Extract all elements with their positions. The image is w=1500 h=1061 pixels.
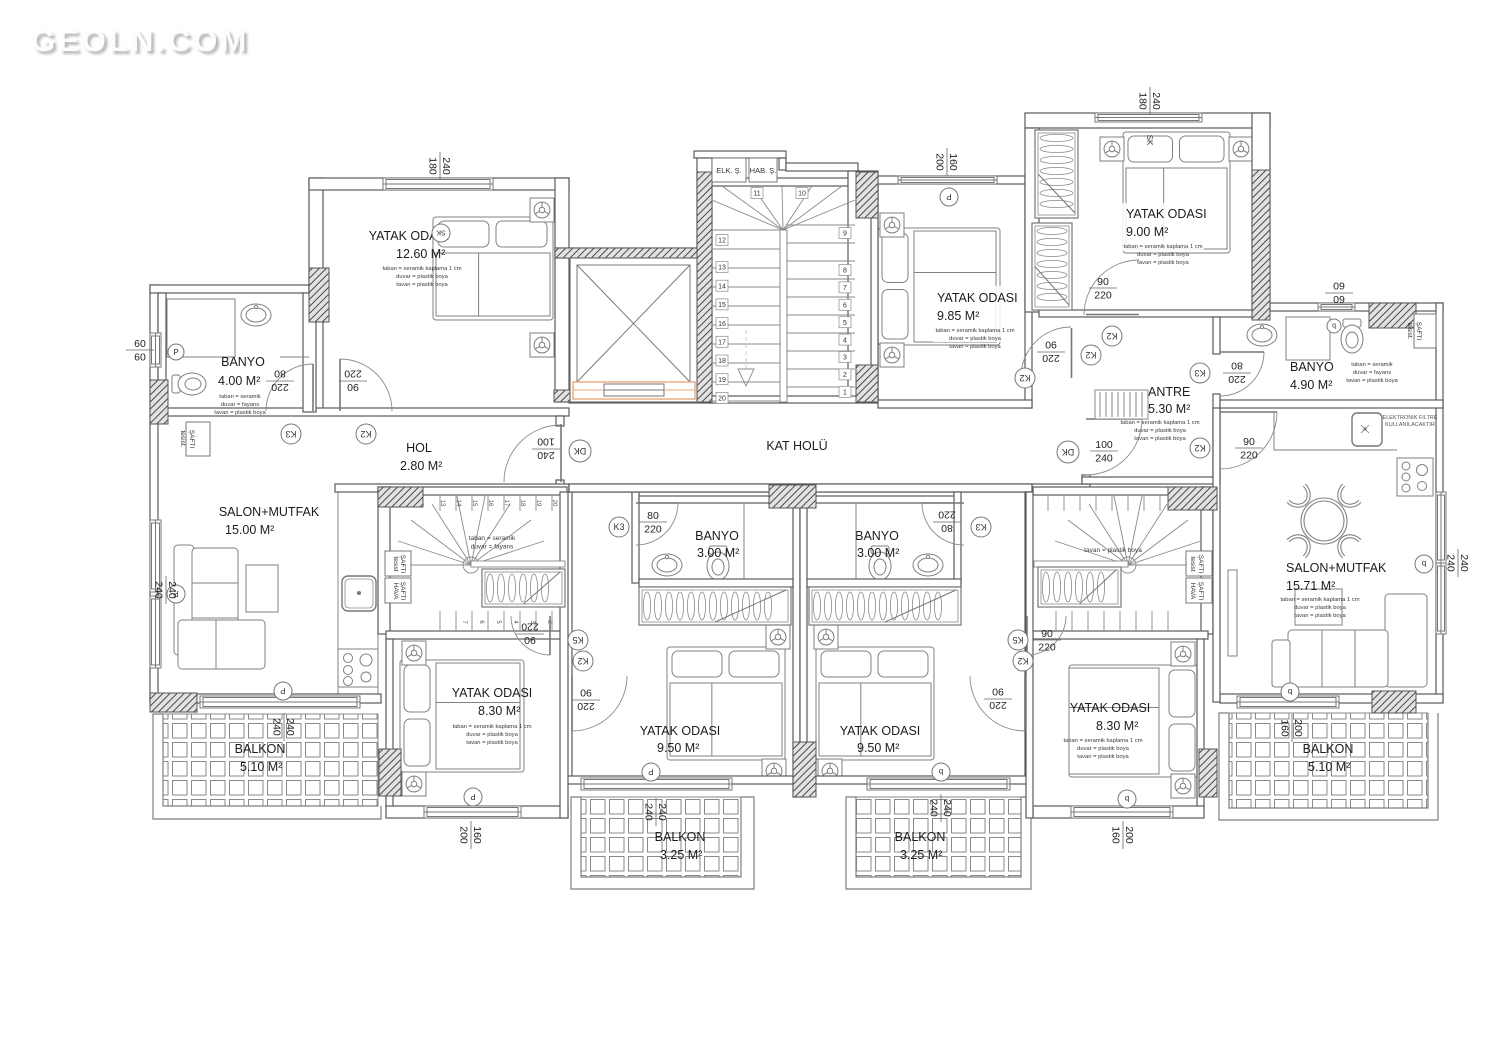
svg-text:14: 14 xyxy=(455,500,461,507)
svg-text:90: 90 xyxy=(1041,628,1053,640)
svg-text:taban = seramik kaplama 1 cm: taban = seramik kaplama 1 cm xyxy=(935,328,1014,334)
svg-text:tavan = plastik boya: tavan = plastik boya xyxy=(949,344,1001,350)
svg-text:duvar = fayans: duvar = fayans xyxy=(1353,370,1391,376)
bed bedroom 8.30 left xyxy=(400,660,524,772)
svg-text:ŞAFTI: ŞAFTI xyxy=(1197,582,1204,601)
elevator shaft xyxy=(570,258,697,402)
svg-text:b: b xyxy=(1421,559,1426,568)
svg-text:220: 220 xyxy=(1042,352,1060,364)
door K3 banyo 4.90 xyxy=(1220,352,1264,396)
svg-text:220: 220 xyxy=(644,524,662,536)
spiral stair right duplex xyxy=(1050,496,1206,573)
entry mat antre xyxy=(1095,390,1148,419)
kitchen right: fridge and counter xyxy=(1352,413,1382,446)
svg-text:HAVA: HAVA xyxy=(392,583,399,600)
door bedroom 8.30 right xyxy=(1027,616,1066,655)
stairwell ELK.S HAB.S boxes xyxy=(712,158,746,182)
svg-text:HOL: HOL xyxy=(406,441,432,455)
door K2 bedroom 9.00 xyxy=(1084,260,1139,315)
svg-text:YATAK ODASI: YATAK ODASI xyxy=(1070,701,1151,715)
svg-text:tavan = plastik boya: tavan = plastik boya xyxy=(1077,754,1129,760)
svg-text:ANTRE: ANTRE xyxy=(1148,385,1190,399)
balcony BALKON 3.25 right grid xyxy=(856,797,1021,877)
svg-text:BALKON: BALKON xyxy=(895,830,946,844)
tv cabinet right salon xyxy=(1228,570,1237,656)
windows xyxy=(383,178,493,190)
door bedroom 8.30 left xyxy=(511,616,550,655)
coffee table right salon xyxy=(1295,589,1342,625)
svg-text:SALON+MUTFAK: SALON+MUTFAK xyxy=(219,505,320,519)
kitchen counter left with sink and stove xyxy=(338,487,378,695)
svg-text:5.10 M²: 5.10 M² xyxy=(240,760,282,774)
door dimension texts xyxy=(266,368,294,394)
svg-text:20: 20 xyxy=(718,396,726,403)
svg-text:taban = seramik: taban = seramik xyxy=(469,535,516,542)
balcony outlines xyxy=(153,713,1438,889)
svg-text:K2: K2 xyxy=(1019,373,1030,383)
svg-text:tesist.: tesist. xyxy=(179,431,186,448)
svg-text:taban = seramik: taban = seramik xyxy=(219,394,261,400)
svg-text:8.30 M²: 8.30 M² xyxy=(478,704,520,718)
svg-text:tavan = plastik boya: tavan = plastik boya xyxy=(396,282,448,288)
svg-text:b: b xyxy=(938,767,943,776)
svg-text:80: 80 xyxy=(274,368,286,380)
svg-text:K2: K2 xyxy=(1017,656,1028,666)
svg-text:duvar = plastik boya: duvar = plastik boya xyxy=(1077,746,1129,752)
svg-text:16: 16 xyxy=(487,500,493,507)
svg-text:90: 90 xyxy=(992,686,1004,698)
svg-text:180: 180 xyxy=(1137,92,1149,110)
svg-text:18: 18 xyxy=(519,500,525,507)
svg-text:60: 60 xyxy=(134,352,146,364)
svg-text:2.80 M²: 2.80 M² xyxy=(400,459,442,473)
svg-text:8.30 M²: 8.30 M² xyxy=(1096,719,1138,733)
svg-text:KAT HOLÜ: KAT HOLÜ xyxy=(766,439,827,453)
svg-text:9: 9 xyxy=(843,231,847,238)
svg-text:3.25 M²: 3.25 M² xyxy=(660,848,702,862)
svg-text:4.00 M²: 4.00 M² xyxy=(218,374,260,388)
spiral stair left duplex xyxy=(393,496,549,573)
svg-text:ELK. Ş.: ELK. Ş. xyxy=(716,166,741,175)
door K3 banyo 4.00 xyxy=(266,364,313,411)
svg-text:ŞAFTI: ŞAFTI xyxy=(188,430,195,449)
sink banyo 3.00 right xyxy=(913,554,943,576)
sink banyo 4.00 xyxy=(241,304,271,326)
svg-text:240: 240 xyxy=(1445,554,1457,572)
elevator door sill (orange) xyxy=(573,382,695,399)
svg-text:taban = seramik kaplama 1 cm: taban = seramik kaplama 1 cm xyxy=(452,724,531,730)
svg-text:ŞAFTI: ŞAFTI xyxy=(1197,555,1204,574)
svg-text:P: P xyxy=(173,348,178,357)
svg-text:K5: K5 xyxy=(572,635,583,645)
svg-text:3.25 M²: 3.25 M² xyxy=(900,848,942,862)
svg-text:K3: K3 xyxy=(975,522,986,532)
svg-text:taban = seramik kaplama 1 cm: taban = seramik kaplama 1 cm xyxy=(1123,244,1202,250)
wardrobe bedroom 8.30 right unit xyxy=(1038,567,1121,607)
wardrobe unit left xyxy=(639,587,791,625)
coffee table left salon xyxy=(246,565,278,612)
svg-text:220: 220 xyxy=(577,700,595,712)
svg-text:BALKON: BALKON xyxy=(235,742,286,756)
svg-text:6: 6 xyxy=(843,303,847,310)
balcony BALKON 3.25 left grid xyxy=(581,797,741,877)
door K2 bedroom 12.60 xyxy=(340,359,392,411)
svg-text:tavan = plastik boya: tavan = plastik boya xyxy=(1294,613,1346,619)
svg-text:240: 240 xyxy=(284,718,296,736)
svg-text:240: 240 xyxy=(537,449,555,461)
svg-text:160: 160 xyxy=(1110,826,1122,844)
svg-text:9.00 M²: 9.00 M² xyxy=(1126,225,1168,239)
wardrobe SK bedroom 9.00 lower xyxy=(1032,223,1072,310)
svg-text:SK: SK xyxy=(436,229,446,236)
svg-text:tesist: tesist xyxy=(392,556,399,571)
svg-text:HAVA: HAVA xyxy=(1189,583,1196,600)
sink banyo 3.00 left xyxy=(652,554,682,576)
toilet banyo 4.90 xyxy=(1341,319,1363,353)
svg-text:90: 90 xyxy=(524,634,536,646)
svg-text:K3: K3 xyxy=(613,522,624,532)
svg-text:220: 220 xyxy=(938,509,956,521)
svg-text:90: 90 xyxy=(347,381,359,393)
svg-text:240: 240 xyxy=(271,718,283,736)
svg-text:taban = seramik kaplama 1 cm: taban = seramik kaplama 1 cm xyxy=(1280,597,1359,603)
svg-text:tavan = plastik boya: tavan = plastik boya xyxy=(214,410,266,416)
svg-text:SALON+MUTFAK: SALON+MUTFAK xyxy=(1286,561,1387,575)
door DK apartment left entrance xyxy=(504,425,561,482)
svg-text:5: 5 xyxy=(843,320,847,327)
svg-text:60: 60 xyxy=(1333,293,1345,305)
label bedroom 9.00 xyxy=(1122,203,1204,251)
svg-text:240: 240 xyxy=(1458,554,1470,572)
shaft boxes right unit xyxy=(1186,551,1212,576)
svg-text:tesist: tesist xyxy=(1189,556,1196,571)
svg-text:160: 160 xyxy=(471,826,483,844)
svg-text:K2: K2 xyxy=(577,656,588,666)
svg-text:200: 200 xyxy=(934,153,946,171)
svg-text:60: 60 xyxy=(134,338,146,350)
svg-text:220: 220 xyxy=(1038,642,1056,654)
svg-text:19: 19 xyxy=(535,500,541,507)
svg-text:15: 15 xyxy=(718,302,726,309)
svg-text:DK: DK xyxy=(1062,447,1075,457)
door K2 salon right xyxy=(1220,412,1277,469)
wardrobe unit right xyxy=(809,587,961,625)
svg-text:tavan = plastik boya: tavan = plastik boya xyxy=(1084,547,1142,554)
svg-text:14: 14 xyxy=(718,283,726,290)
label bedroom 9.85 xyxy=(933,286,1011,342)
svg-text:220: 220 xyxy=(989,699,1007,711)
svg-text:220: 220 xyxy=(344,368,362,380)
svg-text:240: 240 xyxy=(153,581,165,599)
svg-text:BALKON: BALKON xyxy=(655,830,706,844)
svg-text:240: 240 xyxy=(1150,92,1162,110)
sofa left salon xyxy=(174,545,265,669)
svg-text:HAB. Ş.: HAB. Ş. xyxy=(750,166,777,175)
dimension texts xyxy=(427,152,453,180)
svg-text:8: 8 xyxy=(843,268,847,275)
svg-text:220: 220 xyxy=(521,621,539,633)
svg-text:18: 18 xyxy=(718,358,726,365)
shaft boxes left unit xyxy=(385,551,411,576)
svg-text:K5: K5 xyxy=(1012,635,1023,645)
toilet banyo 3.00 right xyxy=(869,546,891,580)
svg-text:taban = seramik kaplama 1 cm: taban = seramik kaplama 1 cm xyxy=(382,266,461,272)
svg-text:duvar = plastik boya: duvar = plastik boya xyxy=(396,274,448,280)
svg-text:220: 220 xyxy=(1240,450,1258,462)
door tag circles xyxy=(281,424,301,444)
svg-text:duvar = fayans: duvar = fayans xyxy=(471,544,515,551)
svg-text:taban = seramik kaplama 1 cm: taban = seramik kaplama 1 cm xyxy=(1063,738,1142,744)
svg-text:4: 4 xyxy=(843,337,847,344)
svg-text:K2: K2 xyxy=(1106,331,1117,341)
svg-text:duvar = plastik boya: duvar = plastik boya xyxy=(1294,605,1346,611)
svg-text:100: 100 xyxy=(1095,439,1113,451)
svg-text:12: 12 xyxy=(718,238,726,245)
svg-text:4.90 M²: 4.90 M² xyxy=(1290,378,1332,392)
shower banyo 4.00 xyxy=(167,299,235,357)
svg-text:3: 3 xyxy=(843,355,847,362)
svg-text:80: 80 xyxy=(1231,360,1243,372)
toilet banyo 3.00 left xyxy=(707,546,729,580)
balcony BALKON 5.10 right grid xyxy=(1229,713,1428,808)
svg-text:240: 240 xyxy=(928,799,940,817)
svg-text:90: 90 xyxy=(580,687,592,699)
svg-text:BANYO: BANYO xyxy=(221,355,265,369)
svg-text:2: 2 xyxy=(843,372,847,379)
svg-text:duvar = plastik boya: duvar = plastik boya xyxy=(1134,428,1186,434)
svg-text:90: 90 xyxy=(1045,339,1057,351)
svg-text:taban = seramik: taban = seramik xyxy=(1351,362,1393,368)
svg-text:240: 240 xyxy=(941,799,953,817)
svg-text:tavan = plastik boya: tavan = plastik boya xyxy=(1137,260,1189,266)
dining table right salon xyxy=(1287,484,1361,558)
svg-text:K2: K2 xyxy=(1194,443,1205,453)
svg-text:16: 16 xyxy=(718,321,726,328)
svg-text:P: P xyxy=(648,767,653,776)
bed bedroom 8.30 right xyxy=(1069,665,1199,777)
svg-text:13: 13 xyxy=(439,500,445,507)
svg-text:YATAK ODASI: YATAK ODASI xyxy=(937,291,1018,305)
svg-text:5.10 M²: 5.10 M² xyxy=(1308,760,1350,774)
svg-text:5.30 M²: 5.30 M² xyxy=(1148,402,1190,416)
svg-text:tavan = plastik boya: tavan = plastik boya xyxy=(1134,436,1186,442)
svg-text:220: 220 xyxy=(1228,373,1246,385)
door DK apartment right entrance xyxy=(1086,419,1142,475)
svg-text:BANYO: BANYO xyxy=(1290,360,1334,374)
svg-text:13: 13 xyxy=(718,265,726,272)
svg-text:YATAK ODASI: YATAK ODASI xyxy=(452,686,533,700)
stove and sink right kitchen xyxy=(1397,458,1433,496)
svg-text:taban = seramik kaplama 1 cm: taban = seramik kaplama 1 cm xyxy=(1120,420,1199,426)
wardrobe SK bedroom 9.00 upper xyxy=(1035,130,1078,218)
stair step numbers xyxy=(751,188,763,199)
svg-text:200: 200 xyxy=(458,826,470,844)
svg-text:240: 240 xyxy=(656,803,668,821)
shaft box banyo 4.90 xyxy=(1414,314,1436,348)
svg-text:1: 1 xyxy=(843,390,847,397)
svg-text:80: 80 xyxy=(647,510,659,522)
door K2 bedroom 9.50 left xyxy=(572,676,627,731)
bed bedroom 12.60 xyxy=(433,217,553,320)
bed bedroom 9.85 xyxy=(878,228,1000,345)
svg-text:BANYO: BANYO xyxy=(695,529,739,543)
svg-text:15.00 M²: 15.00 M² xyxy=(225,523,274,537)
svg-text:17: 17 xyxy=(503,500,509,507)
svg-text:160: 160 xyxy=(947,153,959,171)
svg-text:ŞAFTI: ŞAFTI xyxy=(1415,322,1422,341)
svg-text:SK: SK xyxy=(1145,135,1154,146)
bath banyo 4.90 xyxy=(1286,317,1330,360)
wardrobe bedroom 8.30 left unit xyxy=(482,569,565,607)
svg-text:K3: K3 xyxy=(1194,368,1205,378)
svg-text:BALKON: BALKON xyxy=(1303,742,1354,756)
svg-text:duvar = plastik boya: duvar = plastik boya xyxy=(1137,252,1189,258)
svg-text:P: P xyxy=(946,192,951,201)
svg-text:K2: K2 xyxy=(1085,350,1096,360)
window tag circles xyxy=(168,344,184,360)
door K2 bedroom 9.85 xyxy=(1021,327,1071,377)
svg-text:ELEKTRONIK FILTRE: ELEKTRONIK FILTRE xyxy=(1383,415,1438,421)
svg-text:11: 11 xyxy=(753,191,760,198)
svg-text:duvar = plastik boya: duvar = plastik boya xyxy=(466,732,518,738)
svg-text:9.85 M²: 9.85 M² xyxy=(937,309,979,323)
svg-text:20: 20 xyxy=(551,500,557,507)
svg-text:220: 220 xyxy=(1094,290,1112,302)
svg-text:K2: K2 xyxy=(360,429,371,439)
hatched wall blocks xyxy=(150,380,168,424)
svg-text:17: 17 xyxy=(718,340,726,347)
svg-text:3.00 M²: 3.00 M² xyxy=(697,546,739,560)
svg-text:90: 90 xyxy=(1243,436,1255,448)
svg-text:12.60 M²: 12.60 M² xyxy=(396,247,445,261)
exterior and interior walls xyxy=(150,113,1443,818)
svg-text:YATAK ODASI: YATAK ODASI xyxy=(1126,207,1207,221)
svg-text:3.00 M²: 3.00 M² xyxy=(857,546,899,560)
svg-text:DK: DK xyxy=(574,446,587,456)
svg-text:GEOLN.COM: GEOLN.COM xyxy=(31,23,249,58)
door K3 unit left entry xyxy=(636,503,678,545)
svg-text:100: 100 xyxy=(537,436,555,448)
ceiling fans xyxy=(530,198,554,222)
bed bedroom 9.50 right xyxy=(816,647,934,760)
sofa right salon xyxy=(1272,594,1427,687)
shaft box banyo 4.00 xyxy=(186,422,210,456)
svg-text:240: 240 xyxy=(643,803,655,821)
svg-text:b: b xyxy=(1287,687,1292,696)
svg-text:220: 220 xyxy=(271,381,289,393)
door K2 bedroom 9.50 right xyxy=(970,676,1025,731)
svg-text:b: b xyxy=(1124,794,1129,803)
svg-text:7: 7 xyxy=(843,285,847,292)
svg-text:240: 240 xyxy=(440,157,452,175)
svg-text:ŞAFTI: ŞAFTI xyxy=(399,582,406,601)
svg-text:YATAK ODASI: YATAK ODASI xyxy=(640,724,721,738)
svg-text:200: 200 xyxy=(1123,826,1135,844)
sink banyo 4.90 xyxy=(1247,324,1277,346)
svg-text:240: 240 xyxy=(166,581,178,599)
svg-text:tesist.: tesist. xyxy=(1406,323,1413,340)
bed bedroom 9.00 xyxy=(1123,132,1230,253)
door K3 unit right entry xyxy=(922,503,964,545)
svg-text:K3: K3 xyxy=(285,429,296,439)
svg-text:160: 160 xyxy=(1279,719,1291,737)
svg-text:180: 180 xyxy=(427,157,439,175)
svg-text:b: b xyxy=(1332,322,1336,329)
svg-text:duvar = plastik boya: duvar = plastik boya xyxy=(949,336,1001,342)
svg-text:90: 90 xyxy=(1097,276,1109,288)
svg-text:200: 200 xyxy=(1292,719,1304,737)
svg-text:KULLANILACAKTIR: KULLANILACAKTIR xyxy=(1385,422,1435,428)
bed bedroom 9.50 left xyxy=(667,647,785,760)
svg-text:tavan = plastik boya: tavan = plastik boya xyxy=(1346,378,1398,384)
svg-text:duvar = fayans: duvar = fayans xyxy=(221,402,259,408)
svg-text:BANYO: BANYO xyxy=(855,529,899,543)
banyo divider lines xyxy=(743,503,745,579)
main stairs xyxy=(712,186,855,401)
svg-text:P: P xyxy=(280,686,285,695)
svg-text:9.50 M²: 9.50 M² xyxy=(857,741,899,755)
svg-text:YATAK ODASI: YATAK ODASI xyxy=(840,724,921,738)
svg-text:15: 15 xyxy=(471,500,477,507)
svg-text:9.50 M²: 9.50 M² xyxy=(657,741,699,755)
svg-text:15.71 M²: 15.71 M² xyxy=(1286,579,1335,593)
svg-text:240: 240 xyxy=(1095,453,1113,465)
svg-text:P: P xyxy=(470,792,475,801)
toilet banyo 4.00 xyxy=(172,373,206,395)
svg-text:60: 60 xyxy=(1333,280,1345,292)
svg-text:19: 19 xyxy=(718,377,726,384)
svg-text:ŞAFTI: ŞAFTI xyxy=(399,555,406,574)
svg-text:80: 80 xyxy=(941,522,953,534)
svg-text:tavan = plastik boya: tavan = plastik boya xyxy=(466,740,518,746)
watermark GEOLN.COM xyxy=(0,0,1,1)
balcony BALKON 5.10 left grid xyxy=(163,714,378,806)
svg-text:10: 10 xyxy=(798,191,806,198)
